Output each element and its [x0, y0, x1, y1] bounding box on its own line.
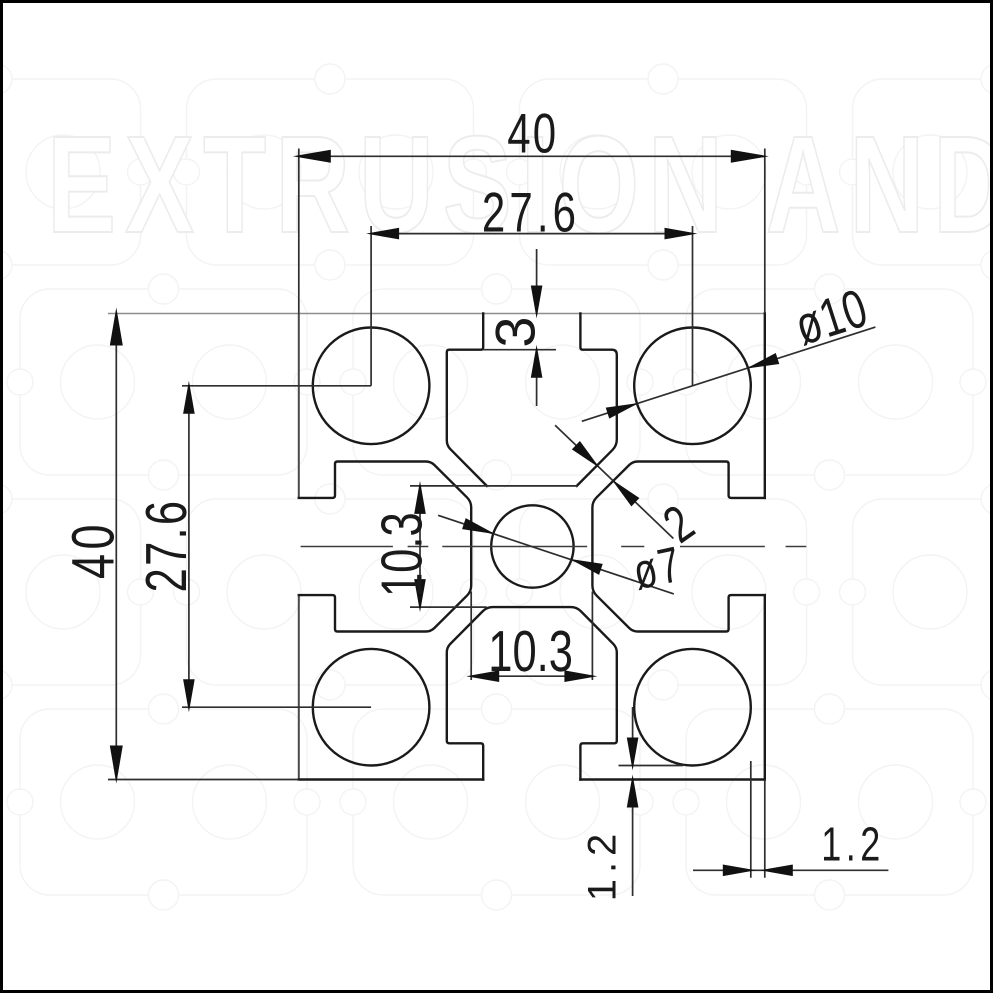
top outer face (thin) [108, 313, 765, 315]
top T-slot outline [447, 314, 487, 486]
top channel bottom (thin) [487, 485, 577, 487]
dimension 2 (web thickness) [555, 425, 673, 538]
dimension 1.2 horizontal [693, 761, 888, 878]
svg-text:1.2: 1.2 [581, 828, 625, 902]
svg-text:40: 40 [60, 520, 127, 579]
dimension 40 left [108, 314, 299, 780]
horizontal center line [301, 546, 807, 548]
left T-slot outline [299, 462, 471, 632]
dimension 10.3 horizontal [471, 592, 592, 681]
svg-text:10.3: 10.3 [369, 512, 434, 597]
dimension o7 leader [438, 515, 674, 594]
svg-text:40: 40 [507, 101, 558, 164]
dimension 27.6 left [182, 386, 371, 707]
corner bore circle top-right [634, 328, 751, 445]
corner bore circle bottom-left [313, 649, 430, 766]
dimension o10 leader [582, 327, 876, 421]
center bore circle [491, 505, 573, 587]
dimension 40 top [299, 149, 765, 314]
dimension 10.3 vertical [410, 486, 577, 607]
corner bore circle bottom-right [634, 649, 751, 766]
svg-text:27.6: 27.6 [482, 180, 580, 243]
bottom T-slot outline [447, 607, 617, 779]
dimension 3 (slot lip depth) [483, 249, 556, 406]
dimension 27.6 top [371, 226, 692, 386]
left outer face [298, 314, 300, 780]
right T-slot outline [592, 462, 764, 632]
svg-text:1.2: 1.2 [821, 819, 885, 872]
dimension 1.2 vertical [619, 707, 684, 896]
svg-text:3: 3 [484, 313, 547, 347]
corner bore circle top-left [313, 328, 430, 445]
bottom outer face [299, 778, 765, 780]
svg-text:27.6: 27.6 [134, 499, 199, 593]
right outer face [764, 314, 766, 780]
svg-text:10.3: 10.3 [488, 619, 573, 684]
